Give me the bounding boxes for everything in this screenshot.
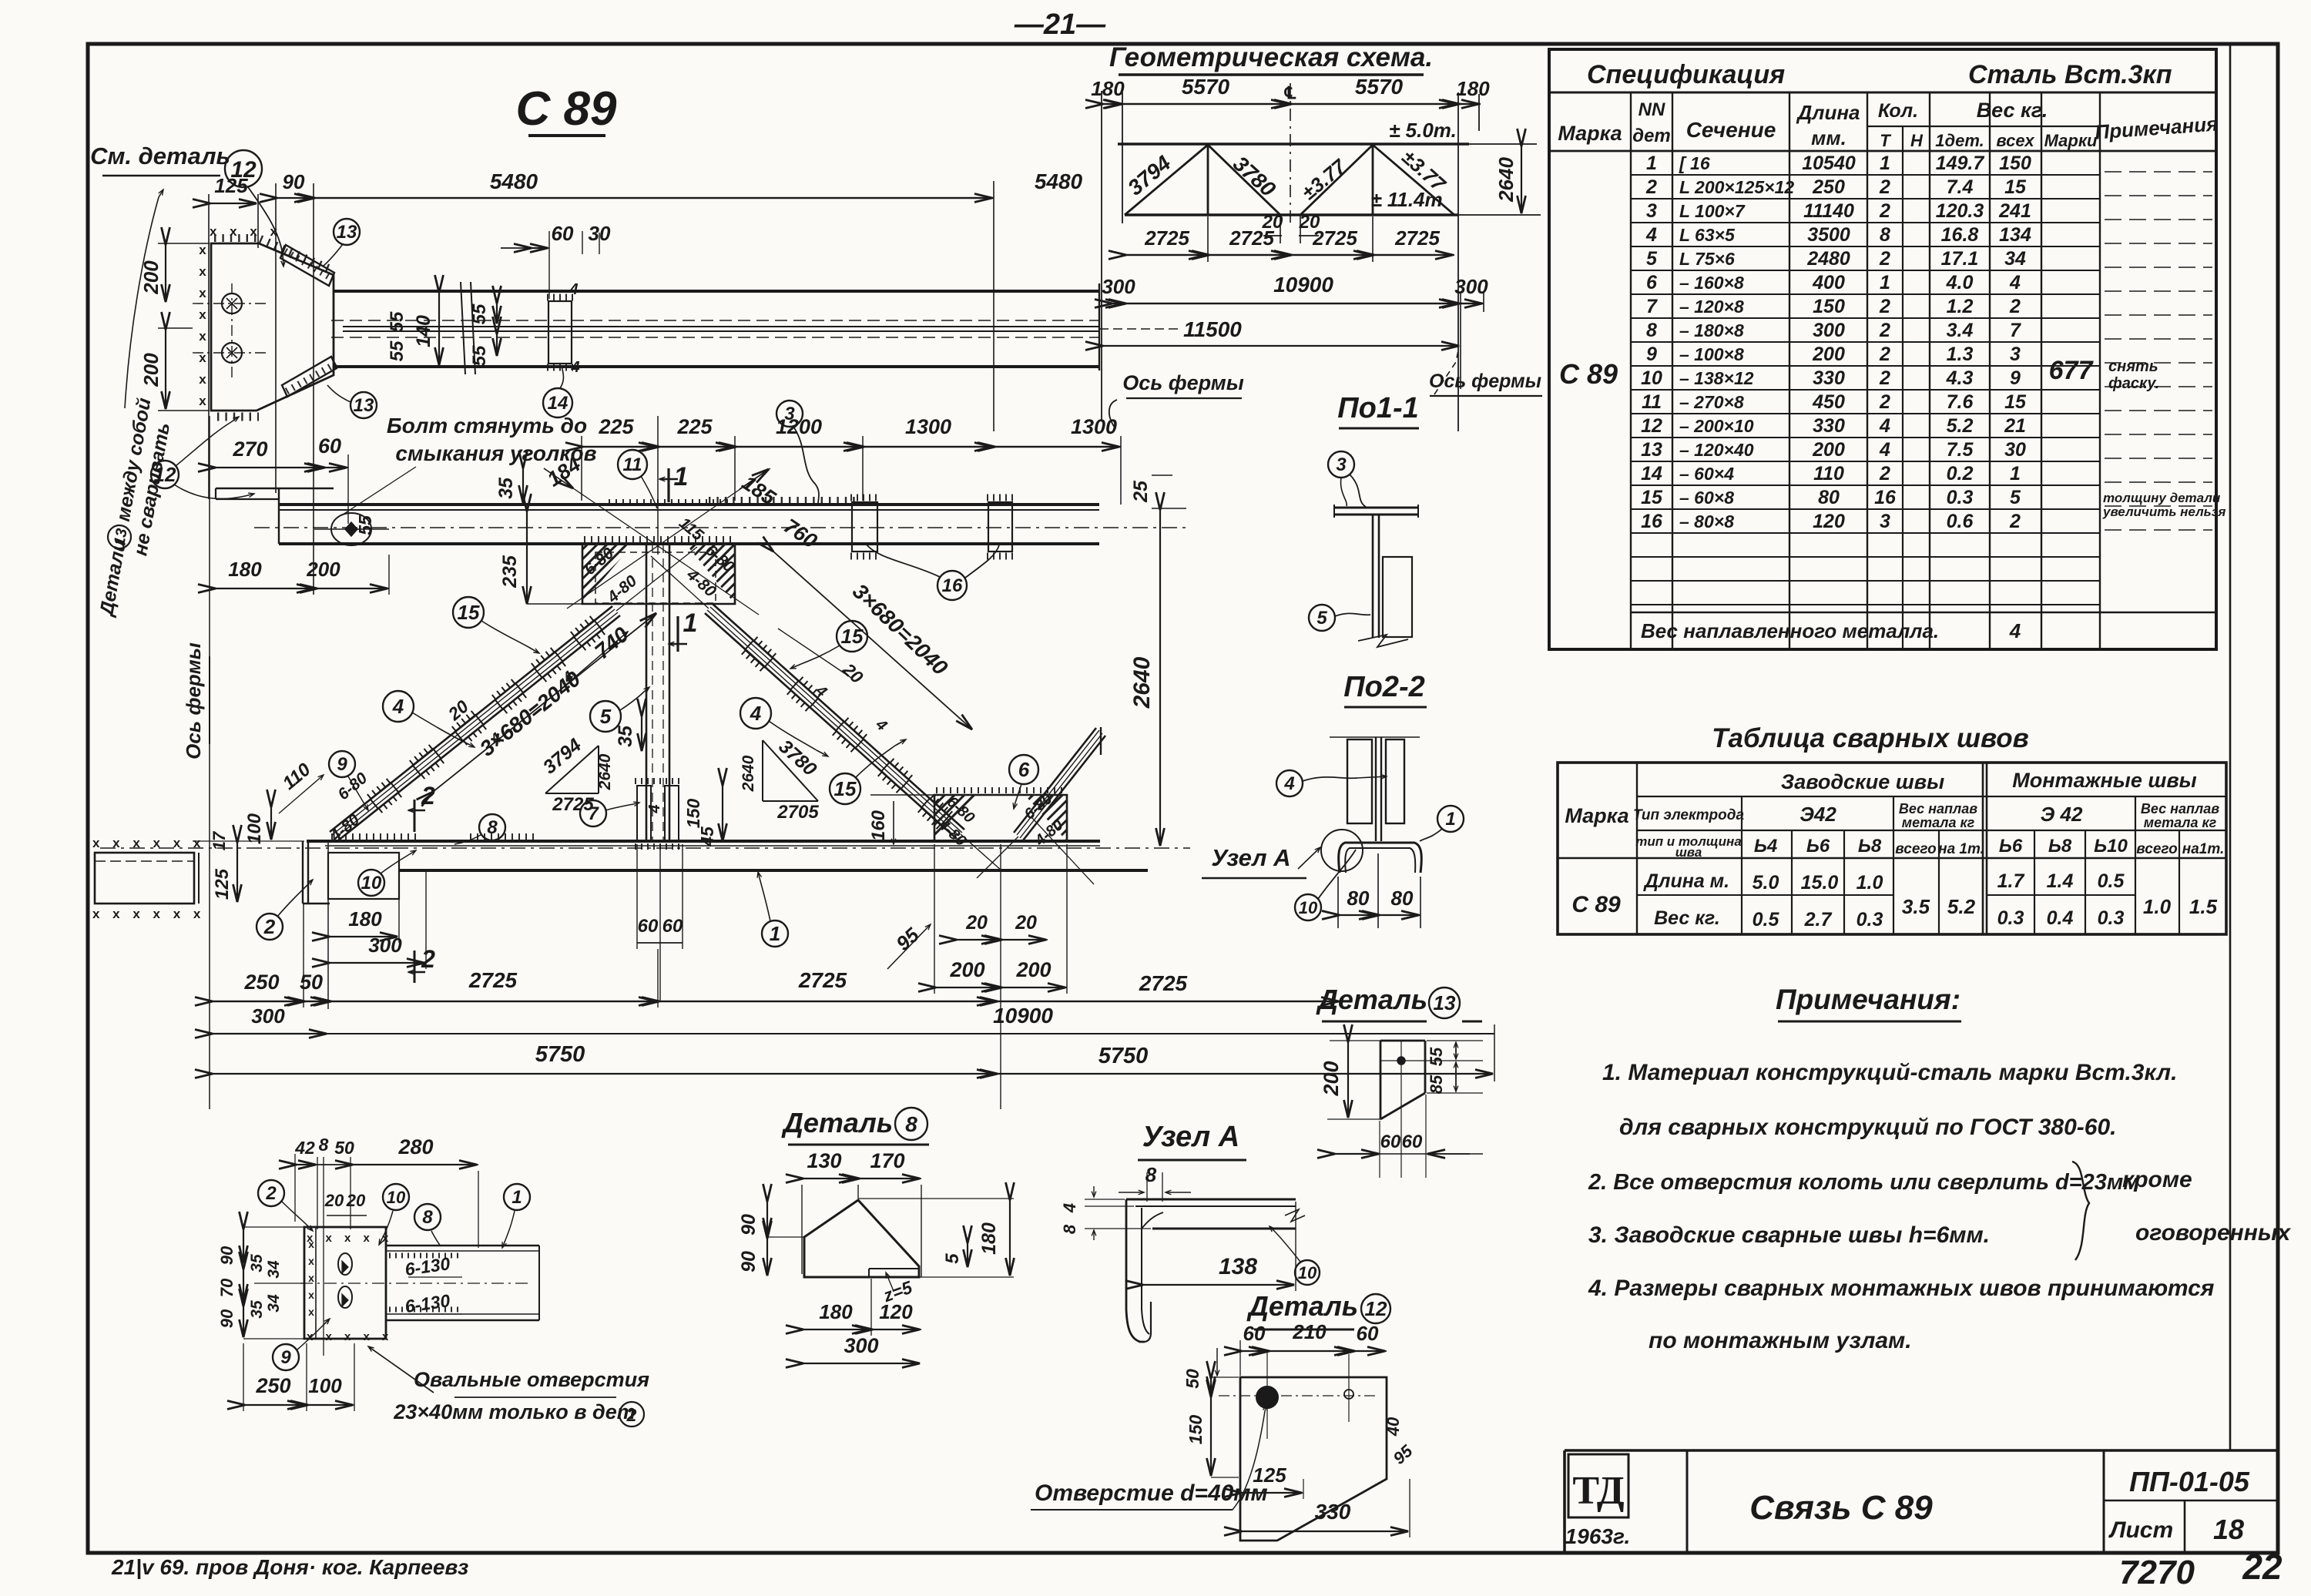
svg-text:677: 677 [2049, 356, 2095, 385]
svg-text:11500: 11500 [1183, 317, 1242, 341]
svg-text:[ 16: [ 16 [1679, 153, 1710, 173]
svg-text:± 5.0т.: ± 5.0т. [1389, 119, 1457, 142]
svg-text:110: 110 [1813, 463, 1844, 484]
uzel A fillet [1142, 1212, 1163, 1229]
svg-text:Узел А: Узел А [1211, 844, 1290, 871]
svg-text:20: 20 [324, 1191, 344, 1210]
left diagonal member [337, 615, 620, 841]
specification table [1549, 49, 2216, 649]
svg-text:– 100×8: – 100×8 [1679, 344, 1744, 364]
svg-text:11140: 11140 [1803, 200, 1854, 222]
svg-text:Ь8: Ь8 [1858, 836, 1882, 857]
svg-text:2640: 2640 [596, 753, 614, 790]
section mark 2 lower [414, 951, 416, 983]
svg-text:3.4: 3.4 [1947, 320, 1974, 341]
svg-text:15: 15 [458, 601, 480, 624]
svg-text:Монтажные швы: Монтажные швы [2012, 769, 2196, 792]
slanted plate 13 upper [280, 245, 334, 286]
svg-text:3.5: 3.5 [1902, 895, 1930, 918]
detail 12 plate [1240, 1377, 1387, 1541]
svg-text:12: 12 [154, 463, 176, 486]
dim 2640 right [1159, 510, 1161, 846]
bottom right gusset [934, 795, 1067, 841]
svg-text:12: 12 [1365, 1297, 1387, 1320]
bl callout 10 [383, 1184, 409, 1210]
uzel A bracket vertical leg [1126, 1199, 1145, 1342]
svg-text:0.3: 0.3 [1997, 907, 2024, 929]
svg-text:80: 80 [1391, 887, 1414, 910]
svg-text:для сварных конструкций по Г: для сварных конструкций по ГОСТ 380-60. [1619, 1115, 2116, 1140]
svg-text:1.4: 1.4 [2047, 870, 2074, 892]
svg-text:4: 4 [1645, 224, 1657, 246]
svg-text:2: 2 [421, 945, 435, 973]
svg-text:200: 200 [1812, 439, 1845, 461]
svg-text:1.0: 1.0 [2143, 895, 2172, 918]
dim 3x680=2040 left [433, 613, 656, 792]
svg-text:250: 250 [243, 971, 279, 994]
svg-text:5: 5 [942, 1253, 963, 1264]
curved leader from note to gusset [125, 197, 159, 408]
svg-text:Ось фермы: Ось фермы [1429, 370, 1541, 392]
svg-text:дет: дет [1632, 126, 1671, 146]
svg-text:x: x [308, 1255, 314, 1267]
svg-text:2: 2 [265, 1183, 277, 1204]
bl callout 1 [504, 1184, 530, 1210]
svg-text:160: 160 [868, 810, 889, 841]
dim rows below truss: 250 50 2725 2725 2725 [211, 1001, 1340, 1002]
section Po1-1 tee flange [1334, 507, 1418, 509]
svg-text:8: 8 [319, 1135, 329, 1155]
svg-text:9: 9 [1646, 344, 1657, 365]
svg-text:0.3: 0.3 [1947, 487, 1974, 508]
slanted plate 13 lower [282, 357, 337, 397]
bl callout 9 [273, 1344, 299, 1370]
svg-text:Вес наплав: Вес наплав [2141, 801, 2219, 816]
svg-text:5480: 5480 [1035, 169, 1083, 193]
node circle on channel [1321, 830, 1363, 871]
geometric scheme extension lines [1101, 91, 1102, 420]
geometric scheme truss verticals [1207, 145, 1209, 215]
svg-text:5.2: 5.2 [1947, 415, 1974, 437]
svg-text:120.3: 120.3 [1936, 200, 1984, 222]
svg-text:Ь6: Ь6 [1806, 836, 1830, 857]
svg-text:Сталь Вст.3кп: Сталь Вст.3кп [1968, 60, 2172, 89]
svg-text:Деталь: Деталь [1246, 1290, 1358, 1322]
svg-text:метала кг: метала кг [1902, 815, 1975, 830]
svg-text:55: 55 [469, 345, 490, 366]
svg-text:x x x x x: x x x x x [307, 1330, 393, 1343]
svg-text:0.5: 0.5 [2098, 870, 2125, 892]
svg-text:55: 55 [355, 515, 375, 535]
svg-text:7: 7 [1646, 296, 1658, 317]
svg-text:55: 55 [387, 340, 408, 361]
svg-text:140: 140 [413, 315, 434, 347]
svg-text:6: 6 [1018, 758, 1030, 781]
svg-text:20: 20 [346, 1191, 366, 1210]
svg-text:12: 12 [1641, 415, 1662, 437]
svg-text:1: 1 [512, 1187, 522, 1208]
svg-text:2: 2 [626, 1405, 637, 1425]
svg-text:Деталь: Деталь [781, 1107, 893, 1138]
svg-text:Марки: Марки [2044, 131, 2098, 150]
svg-text:Заводские швы: Заводские швы [1781, 770, 1944, 793]
svg-text:2480: 2480 [1806, 248, 1850, 270]
bl main plate [304, 1227, 386, 1339]
svg-text:138: 138 [1219, 1254, 1257, 1279]
svg-text:21: 21 [2004, 415, 2026, 437]
svg-text:2: 2 [1879, 344, 1890, 365]
svg-text:13: 13 [1434, 991, 1456, 1014]
svg-text:280: 280 [397, 1135, 433, 1158]
apex gusset [582, 544, 735, 604]
svg-text:x x x x x x: x x x x x x [92, 907, 205, 921]
svg-text:10: 10 [1641, 367, 1662, 389]
svg-text:42: 42 [294, 1138, 315, 1158]
svg-text:5750: 5750 [535, 1042, 585, 1067]
svg-text:Вес наплавленного металла.: Вес наплавленного металла. [1641, 619, 1939, 642]
svg-text:2725: 2725 [1139, 971, 1188, 995]
svg-text:толщину детали: толщину детали [2103, 491, 2221, 505]
svg-text:Лист: Лист [2108, 1517, 2173, 1543]
svg-text:200: 200 [949, 958, 984, 981]
svg-text:2: 2 [1879, 200, 1890, 222]
svg-text:2725: 2725 [1394, 226, 1440, 250]
svg-text:15: 15 [2004, 391, 2027, 413]
svg-text:2725: 2725 [1229, 226, 1274, 250]
slope triangle left (3794/2640/2725) [598, 746, 599, 793]
svg-text:Сечение: Сечение [1686, 118, 1776, 142]
svg-text:8: 8 [422, 1207, 433, 1228]
svg-text:x: x [308, 1238, 314, 1250]
strut beam (upper detail) [334, 290, 1099, 293]
svg-text:2725: 2725 [798, 968, 847, 992]
svg-text:x: x [308, 1272, 314, 1284]
svg-text:300: 300 [1102, 275, 1135, 298]
callout circle 10 (Po2-2) [1295, 894, 1321, 920]
svg-text:по монтажным узлам.: по монтажным узлам. [1649, 1328, 1912, 1353]
svg-text:2: 2 [263, 915, 276, 938]
svg-text:Таблица сварных швов: Таблица сварных швов [1712, 723, 2029, 753]
svg-text:330: 330 [1813, 367, 1845, 389]
detail 12 big hole [1256, 1386, 1278, 1408]
svg-text:16: 16 [1874, 487, 1897, 508]
svg-text:150: 150 [1813, 296, 1845, 317]
svg-text:9: 9 [2010, 367, 2021, 389]
svg-text:Марка: Марка [1565, 804, 1628, 827]
svg-text:100: 100 [308, 1374, 342, 1397]
svg-text:8: 8 [1880, 224, 1890, 246]
svg-text:8: 8 [487, 817, 498, 838]
svg-text:1дет.: 1дет. [1935, 131, 1984, 150]
svg-text:7.5: 7.5 [1947, 439, 1974, 461]
callout circles 15 [453, 597, 484, 628]
svg-text:2640: 2640 [1494, 157, 1518, 203]
svg-text:1.7: 1.7 [1997, 870, 2025, 892]
svg-text:1.3: 1.3 [1947, 344, 1974, 365]
svg-text:x: x [199, 307, 206, 322]
svg-text:6: 6 [1646, 272, 1658, 293]
geometric scheme top chord [1118, 142, 1469, 146]
svg-text:100: 100 [244, 813, 265, 844]
svg-text:С 89: С 89 [1571, 892, 1621, 917]
svg-text:Тип электрода: Тип электрода [1633, 807, 1744, 823]
svg-text:5.0: 5.0 [1753, 872, 1779, 894]
svg-text:2: 2 [421, 782, 435, 810]
callout circles 4 [383, 691, 414, 722]
svg-text:60: 60 [318, 434, 341, 458]
svg-text:ТД: ТД [1572, 1469, 1624, 1513]
detail 13 plate [1380, 1040, 1425, 1042]
svg-text:5: 5 [600, 705, 612, 728]
svg-text:15.0: 15.0 [1801, 872, 1839, 894]
svg-text:80: 80 [1347, 887, 1370, 910]
svg-text:55: 55 [1427, 1047, 1446, 1066]
svg-text:35: 35 [495, 477, 517, 499]
svg-text:7270: 7270 [2119, 1554, 2195, 1591]
svg-text:15: 15 [1641, 487, 1663, 508]
svg-text:2. Все отверстия колоть или св: 2. Все отверстия колоть или сверлить d=2… [1588, 1170, 2140, 1195]
svg-text:Длина м.: Длина м. [1643, 870, 1729, 892]
svg-text:Отверстие d=40мм: Отверстие d=40мм [1035, 1480, 1268, 1506]
svg-text:2725: 2725 [1312, 226, 1357, 250]
long vertical divider right [2229, 44, 2232, 1450]
svg-text:3500: 3500 [1807, 224, 1850, 246]
rotated note: Detali 13 mezhdu soboi ne svarivat [94, 396, 156, 619]
title block [1565, 1449, 2276, 1452]
svg-text:x: x [308, 1306, 314, 1318]
svg-text:1.2: 1.2 [1947, 296, 1974, 317]
callout circle 16 [937, 571, 967, 600]
svg-text:1300: 1300 [1071, 415, 1117, 438]
uzel A break squiggle [1285, 1209, 1305, 1222]
svg-text:25: 25 [1130, 480, 1152, 503]
svg-text:17.1: 17.1 [1941, 248, 1979, 270]
geometric scheme dim row 180 5570 5570 180 [1102, 103, 1481, 105]
svg-text:150: 150 [1999, 153, 2031, 174]
svg-text:250: 250 [1812, 176, 1845, 198]
svg-text:2: 2 [1879, 248, 1890, 270]
weld comb on beam top (splice) [709, 497, 855, 505]
svg-text:2: 2 [1879, 463, 1890, 484]
svg-text:x: x [199, 372, 206, 387]
chord left step [302, 841, 304, 904]
svg-text:20: 20 [1015, 912, 1037, 934]
svg-text:60: 60 [1243, 1322, 1266, 1345]
svg-text:22: 22 [2242, 1547, 2282, 1587]
weld table [1558, 763, 2226, 934]
svg-text:1: 1 [1880, 153, 1890, 174]
section Po2-2 right angle [1386, 739, 1404, 823]
dim 3x680=2040 right [773, 552, 972, 729]
svg-text:По2-2: По2-2 [1343, 671, 1424, 703]
svg-text:60: 60 [552, 222, 574, 245]
section Po2-2 left angle [1347, 739, 1372, 823]
svg-text:34: 34 [265, 1294, 283, 1313]
svg-text:5480: 5480 [490, 169, 538, 193]
svg-text:± 11.4т: ± 11.4т [1370, 188, 1442, 211]
svg-text:17: 17 [210, 830, 229, 850]
svg-text:55: 55 [387, 311, 408, 332]
svg-text:x: x [199, 394, 206, 408]
svg-text:4: 4 [570, 359, 579, 376]
dim row 300 10900 [211, 1033, 1494, 1034]
svg-text:всего: всего [2136, 841, 2177, 857]
svg-text:2: 2 [1879, 367, 1890, 389]
section mark 1 upper [667, 468, 669, 502]
section Po2-2 top edge line [1330, 736, 1420, 738]
svg-text:16.8: 16.8 [1941, 224, 1979, 246]
svg-text:1: 1 [770, 922, 780, 945]
geometric scheme dim row 11500 [1103, 345, 1459, 347]
detail 12 hole centerline [1219, 1395, 1377, 1396]
callout circle 10 (chord) [358, 870, 384, 896]
svg-text:13: 13 [1641, 439, 1662, 461]
title block TD logo [1568, 1454, 1628, 1517]
svg-text:16: 16 [1641, 511, 1663, 532]
vertical member (post) [646, 544, 648, 840]
splice plates 16 [852, 502, 877, 552]
svg-text:С 89: С 89 [516, 82, 617, 136]
svg-text:2725: 2725 [1144, 226, 1189, 250]
apex 45deg extension lines with dims 184 185 760 [567, 468, 770, 609]
svg-text:200: 200 [1015, 958, 1051, 981]
svg-text:x: x [199, 243, 206, 257]
callout circle 4 (Po2-2) [1276, 770, 1303, 796]
svg-text:200: 200 [1812, 344, 1845, 365]
plate 14 on strut [548, 301, 572, 364]
svg-text:13: 13 [337, 222, 357, 243]
svg-text:10900: 10900 [1273, 273, 1333, 297]
svg-text:7: 7 [588, 803, 599, 824]
svg-text:34: 34 [2004, 248, 2026, 270]
svg-text:300: 300 [251, 1004, 285, 1028]
svg-text:330: 330 [1315, 1500, 1351, 1524]
svg-text:180: 180 [348, 907, 382, 930]
svg-text:– 120×40: – 120×40 [1679, 440, 1754, 460]
svg-text:NN: NN [1638, 99, 1665, 120]
svg-text:С 89: С 89 [1559, 358, 1618, 390]
splice plate 12 on beam left end [216, 488, 334, 490]
far right diagonal member [1023, 736, 1105, 840]
svg-text:0.6: 0.6 [1947, 511, 1974, 532]
callout circle 6 [1009, 755, 1038, 784]
svg-text:149.7: 149.7 [1936, 153, 1985, 174]
svg-text:2: 2 [1879, 391, 1890, 413]
svg-text:Длина: Длина [1796, 101, 1860, 124]
svg-text:4: 4 [569, 281, 578, 298]
svg-text:8: 8 [1646, 320, 1657, 341]
right diagonal member [705, 613, 957, 839]
svg-text:Ось фермы: Ось фермы [182, 642, 205, 759]
geometric scheme truss diagonals [1125, 145, 1208, 215]
svg-text:1: 1 [1880, 272, 1890, 293]
svg-text:0.3: 0.3 [1857, 909, 1883, 930]
svg-text:4: 4 [1879, 439, 1890, 461]
svg-text:125: 125 [212, 868, 233, 900]
svg-text:4.0: 4.0 [1946, 272, 1974, 293]
svg-text:3. Заводские сварные швы h=: 3. Заводские сварные швы h=6мм. [1588, 1222, 1990, 1248]
svg-text:200: 200 [139, 353, 163, 387]
svg-text:20: 20 [965, 912, 988, 934]
svg-text:210: 210 [1292, 1320, 1327, 1343]
svg-text:10: 10 [1299, 898, 1318, 917]
svg-text:Т: Т [1880, 131, 1891, 150]
svg-text:8: 8 [905, 1112, 917, 1136]
svg-text:снять: снять [2108, 358, 2158, 375]
uzel A bracket horizontal flange [1126, 1199, 1296, 1201]
svg-text:℄: ℄ [1284, 83, 1296, 102]
callout circle 3 (Po1-1) [1328, 451, 1354, 478]
svg-text:13: 13 [354, 395, 374, 416]
svg-text:на 1т.: на 1т. [1938, 841, 1984, 857]
svg-text:Э 42: Э 42 [2041, 803, 2083, 826]
svg-text:200: 200 [306, 558, 340, 581]
svg-text:400: 400 [1812, 272, 1845, 293]
svg-text:15: 15 [834, 777, 857, 800]
svg-text:4: 4 [750, 702, 762, 725]
svg-text:x x x x: x x x x [210, 224, 282, 239]
svg-text:ПП-01-05: ПП-01-05 [2129, 1466, 2250, 1497]
notes curly brace [2072, 1162, 2089, 1260]
svg-text:14: 14 [548, 393, 569, 414]
svg-text:15: 15 [841, 625, 864, 648]
svg-text:2: 2 [1879, 320, 1890, 341]
svg-text:1: 1 [674, 462, 689, 491]
svg-text:300: 300 [844, 1334, 878, 1357]
svg-text:2: 2 [2009, 511, 2021, 532]
svg-text:2.7: 2.7 [1804, 909, 1833, 930]
svg-text:Деталь: Деталь [1316, 984, 1427, 1015]
svg-text:3: 3 [1646, 200, 1657, 222]
svg-text:3: 3 [1880, 511, 1890, 532]
gusset plate top-left [211, 243, 334, 411]
svg-text:7.4: 7.4 [1947, 176, 1974, 198]
svg-text:По1-1: По1-1 [1337, 392, 1418, 424]
section line 1-1 vertical [657, 416, 659, 555]
plate 10 under chord [328, 853, 399, 899]
svg-text:– 180×8: – 180×8 [1679, 320, 1744, 340]
svg-text:5570: 5570 [1182, 75, 1230, 99]
svg-text:23×40мм только в дет: 23×40мм только в дет [393, 1400, 635, 1423]
right diagonal battens [743, 639, 774, 670]
svg-text:L 200×125×12: L 200×125×12 [1679, 177, 1794, 197]
svg-text:1. Материал конструкций-сталь: 1. Материал конструкций-сталь марки Вст.… [1602, 1060, 2177, 1085]
svg-text:x: x [199, 329, 206, 344]
diagonal stubs across right gusset [961, 834, 1001, 870]
bolt symbol on beam [331, 513, 371, 545]
svg-text:1.0: 1.0 [1857, 872, 1883, 894]
svg-text:шва: шва [1675, 845, 1702, 860]
svg-text:2705: 2705 [776, 802, 819, 823]
svg-text:120: 120 [1813, 511, 1845, 532]
svg-text:4: 4 [2009, 272, 2021, 293]
callout circle 12 (top) [225, 150, 262, 187]
svg-text:– 60×8: – 60×8 [1679, 488, 1734, 508]
svg-text:1: 1 [1646, 153, 1657, 174]
slope triangle right (3780/2640/2705) [762, 740, 763, 801]
bl callout 8 [414, 1204, 441, 1230]
svg-text:225: 225 [676, 415, 713, 438]
svg-text:270: 270 [232, 438, 267, 461]
svg-text:Примечания:: Примечания: [1776, 984, 1960, 1015]
svg-text:11: 11 [623, 454, 642, 475]
svg-text:10: 10 [387, 1188, 406, 1207]
svg-text:Геометрическая схема.: Геометрическая схема. [1109, 42, 1433, 72]
detail 8 plate shape [804, 1200, 919, 1277]
svg-text:90: 90 [217, 1309, 236, 1328]
svg-text:Ь8: Ь8 [2048, 836, 2072, 857]
beam break marks [461, 282, 465, 374]
